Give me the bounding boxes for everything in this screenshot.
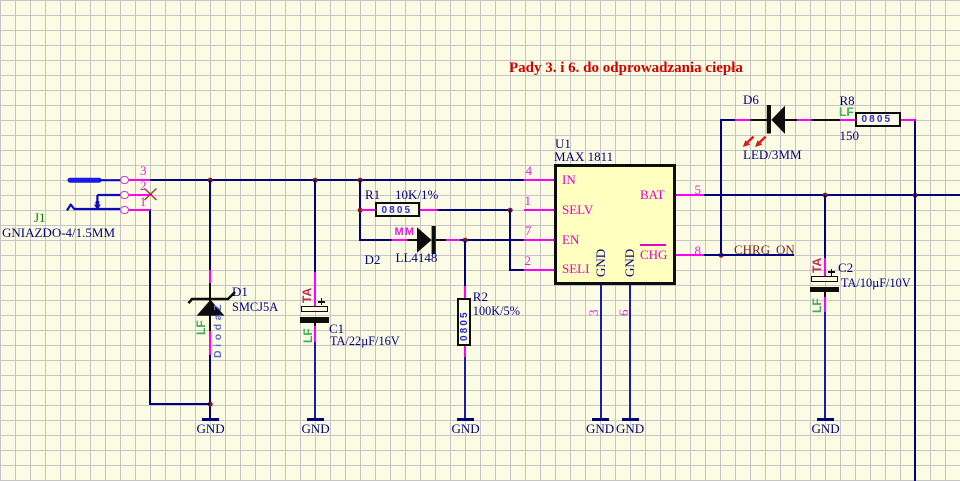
pin stub U1.4 IN bbox=[524, 179, 554, 181]
pin stub R2 bottom bbox=[464, 345, 466, 357]
node: junction SELV bbox=[507, 207, 513, 213]
U1 pin name CHG with overline bbox=[640, 244, 666, 246]
black lead D2 left bbox=[407, 239, 417, 241]
C1 TA text bbox=[301, 287, 313, 302]
diode D1 TVS symbol bbox=[183, 286, 239, 320]
J1 pin number 1 bbox=[140, 195, 147, 208]
D2 designator bbox=[365, 253, 381, 266]
diode D6 LED bbox=[764, 103, 788, 136]
C2 bottom plate bbox=[810, 287, 839, 292]
C2 plus sign bbox=[828, 271, 835, 273]
wire: U1 pin6 to GND bbox=[629, 285, 631, 418]
U1 pin name BAT bbox=[640, 188, 665, 201]
J1 pin circle 3 bbox=[120, 176, 128, 184]
U1 pin name EN bbox=[562, 233, 579, 246]
wire: C2 top bbox=[824, 195, 826, 258]
black lead C1 bbox=[314, 321, 316, 326]
J1 pin circle 2 bbox=[120, 191, 128, 199]
ground symbol C2 bbox=[817, 418, 834, 421]
wire: vertical branch x360 down to D2 row bbox=[359, 180, 361, 241]
pin stub D1 top bbox=[209, 270, 211, 284]
pin stub C1 top bbox=[314, 272, 316, 306]
ground symbol U1 pin6 bbox=[622, 418, 639, 421]
pin stub R8 right bbox=[901, 119, 915, 121]
wire: R1 right to SELV junction bbox=[437, 209, 510, 211]
pin stub R8 left bbox=[840, 119, 855, 121]
ground symbol U1 pin3 bbox=[592, 418, 609, 421]
D1 footprint vertical text bbox=[213, 301, 224, 358]
ground symbol D1 bbox=[202, 418, 219, 421]
J1 pin1 tip contact bbox=[67, 205, 120, 211]
wire: R8 right drop x915 bbox=[914, 119, 916, 481]
pin stub D6 left bbox=[735, 119, 750, 121]
wire: R2 bottom to GND bbox=[464, 357, 466, 418]
wire: vertical x510 SELV to SELI bbox=[509, 210, 511, 271]
node: junction BAT/C2 bbox=[822, 192, 828, 198]
node: junction top wire at D1 bbox=[207, 177, 213, 183]
D1 LF text bbox=[195, 320, 207, 335]
wire: horizontal into SELI stub bbox=[509, 269, 525, 271]
U1 designator bbox=[555, 137, 571, 150]
pin stub D1 bottom bbox=[209, 330, 211, 355]
C2 designator bbox=[838, 261, 853, 274]
resistor R8 bbox=[855, 112, 901, 127]
pin stub J1.3 bbox=[129, 179, 150, 181]
wire: bottom-left horizontal to D1 node bbox=[149, 403, 210, 405]
D6 LED arrows bbox=[738, 132, 770, 152]
R2 footprint text rotated bbox=[460, 310, 470, 341]
pin stub C2 top bbox=[824, 258, 826, 276]
R8 LF text bbox=[839, 106, 854, 118]
U1 pin number 2 bbox=[525, 254, 532, 267]
C2 value bbox=[841, 277, 911, 289]
wire: main top net J1.3 to U1.IN bbox=[150, 179, 524, 181]
wire: CHG net label wire bbox=[704, 254, 794, 256]
black lead D6 left bbox=[750, 119, 767, 121]
black lead C2 bbox=[824, 291, 826, 297]
D1 designator bbox=[232, 285, 248, 298]
U1 pin number 3 rotated bbox=[587, 309, 600, 316]
node: junction R1 left tap bbox=[357, 207, 363, 213]
R1 footprint text bbox=[382, 206, 413, 216]
wire: J1 pin1 down bbox=[149, 209, 151, 405]
U1 pin number 1 bbox=[525, 194, 532, 207]
pin stub U1.1 SELV bbox=[524, 209, 554, 211]
node: junction CHG bbox=[718, 252, 724, 258]
ground symbol C1 bbox=[307, 418, 324, 421]
pin stub R2 top bbox=[464, 286, 466, 298]
node: junction BAT/R8 drop bbox=[912, 192, 918, 198]
R1 designator bbox=[365, 188, 380, 201]
pin stub U1.2 SELI bbox=[524, 269, 554, 271]
C1 LF text bbox=[302, 328, 314, 343]
U1 pin number 6 rotated bbox=[617, 309, 630, 316]
wire: C1 bottom to GND bbox=[314, 341, 316, 418]
node: junction top wire at R1 branch bbox=[357, 177, 363, 183]
IC U1 MAX1811 body bbox=[554, 164, 676, 285]
R2 designator bbox=[473, 290, 488, 303]
pin stub J1.1 bbox=[129, 209, 150, 211]
J1 value bbox=[2, 226, 115, 239]
wire: D1 bottom to GND bbox=[209, 355, 211, 418]
node: junction top wire at C1 bbox=[312, 177, 318, 183]
U1 pin name IN bbox=[562, 173, 576, 186]
C2 TA text bbox=[811, 258, 823, 273]
ground symbol R2 bbox=[457, 418, 474, 421]
D2 value bbox=[396, 251, 438, 264]
pin stub J1.2 bbox=[129, 194, 152, 196]
pin stub R1 right bbox=[420, 209, 437, 211]
U1 value bbox=[554, 150, 613, 163]
pin stub U1.5 BAT bbox=[676, 194, 704, 196]
wire: BAT net to right edge bbox=[704, 194, 960, 196]
net label CHRG ON bbox=[734, 243, 795, 256]
C2 LF text bbox=[811, 298, 823, 313]
C1 top plate bbox=[301, 306, 328, 312]
J1 pin number 2 bbox=[140, 179, 147, 192]
U1 pin name SELI bbox=[562, 262, 589, 275]
title bbox=[509, 61, 743, 76]
black lead D2 right bbox=[436, 239, 446, 241]
D6 value bbox=[743, 148, 802, 161]
R8 value bbox=[840, 129, 860, 142]
wire: D6 to R8 segment bbox=[811, 119, 840, 121]
J1 pin2 switch contact bbox=[97, 194, 121, 196]
D6 designator bbox=[743, 93, 759, 106]
U1 internal GND label pin6 bbox=[623, 248, 636, 276]
wire: vertical to D1 bbox=[209, 180, 211, 271]
wire: D2 cathode to EN pin bbox=[459, 239, 524, 241]
C1 value bbox=[330, 335, 400, 347]
R1 value bbox=[395, 188, 438, 201]
pin stub R1 left bbox=[361, 209, 375, 211]
R2 value bbox=[473, 305, 520, 317]
C1 bottom plate bbox=[300, 317, 329, 322]
node: junction D1/J1 ground return bbox=[207, 401, 213, 407]
pin stub D6 right bbox=[796, 119, 812, 121]
J1 no-ERC X on pin2 bbox=[143, 187, 158, 202]
pin stub U1.8 CHG bbox=[676, 254, 704, 256]
U1 pin name SELV bbox=[562, 203, 593, 216]
pin stub D2 right bbox=[445, 239, 460, 241]
J1 pin number 3 bbox=[140, 164, 147, 177]
D1 value bbox=[232, 301, 278, 313]
node: junction D2/R2 bbox=[462, 237, 468, 243]
C2 top plate bbox=[811, 276, 838, 282]
pin stub C1 bottom bbox=[314, 325, 316, 342]
black lead D6 right bbox=[785, 119, 797, 121]
wire: vertical x721 LED to CHG bbox=[720, 120, 722, 256]
C1 plus sign bbox=[318, 301, 325, 303]
pin stub U1.7 EN bbox=[524, 239, 554, 241]
wire: C2 bottom to GND bbox=[824, 312, 826, 418]
resistor R1 bbox=[375, 202, 420, 216]
J1 designator bbox=[34, 211, 46, 224]
R8 designator bbox=[840, 94, 855, 107]
resistor R2 bbox=[457, 298, 471, 346]
U1 internal GND label pin3 bbox=[594, 248, 607, 276]
U1 pin number 8 bbox=[695, 244, 702, 257]
J1 sleeve bar pin3 bbox=[70, 178, 99, 183]
J1 pin circle 1 bbox=[120, 206, 128, 214]
black lead D1 through symbol bbox=[209, 283, 211, 331]
U1 pin number 5 bbox=[695, 183, 702, 196]
wire: corner into D6 bbox=[720, 119, 736, 121]
pin stub D2 left bbox=[392, 239, 407, 241]
C1 designator bbox=[329, 322, 344, 335]
U1 pin number 4 bbox=[526, 164, 533, 177]
U1 pin number 7 bbox=[525, 224, 532, 237]
wire: down to R2 bbox=[464, 241, 466, 287]
D2 MM footprint text bbox=[395, 227, 416, 238]
R8 footprint text bbox=[862, 115, 893, 125]
pin stub C2 bottom bbox=[824, 296, 826, 312]
wire: U1 pin3 to GND bbox=[600, 285, 602, 418]
wire: vertical to C1 bbox=[314, 180, 316, 273]
wire: horizontal into D2 anode bbox=[359, 239, 392, 241]
diode D2 LL4148 bbox=[415, 224, 438, 256]
connector J1 jack symbol bbox=[60, 170, 135, 220]
